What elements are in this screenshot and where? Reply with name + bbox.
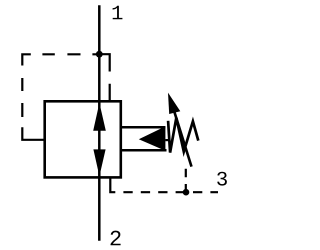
wire pilot dashed branch right-down to box top [99,54,109,101]
valve body box [45,101,121,177]
adjustment arrow shaft [174,112,191,167]
wire drain branch from box bottom [110,177,115,192]
wire stub triangle base to spring [165,139,170,141]
wire pilot dashed line left [22,54,97,140]
spring zigzag [168,118,198,153]
wire dashed drain vertical [185,169,187,191]
wire bottom port line right of box [121,149,167,152]
label port 1 [113,6,123,19]
node junction dot on drain line [183,189,190,196]
wire top port line right of box [121,126,166,129]
label port 2 [111,231,121,246]
node junction dot on port 1 line [96,51,103,58]
arrow up inside box [93,103,106,131]
wire main vertical line port1-to-port2 [98,5,101,241]
wire dashed drain horizontal to port 3 [123,191,218,193]
pilot poppet filled triangle pointing left [139,126,166,150]
arrow down inside box [93,149,105,176]
label port 3 [217,172,227,186]
adjustment arrow head [168,93,180,114]
